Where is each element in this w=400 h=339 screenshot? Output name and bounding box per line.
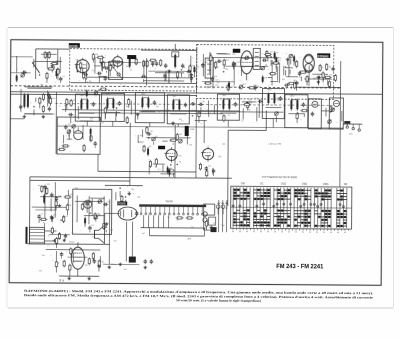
svg-text:4k7: 4k7 [142, 233, 145, 235]
svg-text:100: 100 [204, 62, 207, 64]
svg-text:8p: 8p [57, 262, 59, 264]
svg-text:0,1: 0,1 [53, 66, 56, 68]
svg-text:22p: 22p [247, 109, 250, 111]
svg-text:50: 50 [107, 201, 109, 203]
svg-text:2n2: 2n2 [110, 229, 113, 231]
svg-text:2n2: 2n2 [208, 165, 211, 167]
svg-text:22p: 22p [299, 77, 302, 79]
svg-text:100: 100 [126, 66, 129, 68]
svg-text:0,1: 0,1 [241, 121, 244, 123]
svg-text:10n: 10n [179, 155, 182, 157]
svg-text:220: 220 [69, 194, 72, 196]
svg-text:2n2: 2n2 [139, 135, 142, 137]
svg-text:10n: 10n [143, 77, 146, 79]
svg-text:220: 220 [288, 59, 291, 61]
svg-text:MF2: MF2 [80, 95, 84, 97]
svg-text:TUTTI SEZIONI DA TAVI IN BASE: TUTTI SEZIONI DA TAVI IN BASE [262, 176, 298, 179]
svg-text:8p: 8p [151, 131, 153, 133]
svg-text:5Y3GB: 5Y3GB [118, 203, 126, 206]
svg-text:2n2: 2n2 [101, 122, 104, 124]
svg-text:50: 50 [137, 186, 139, 188]
svg-text:DTRBM2: DTRBM2 [318, 54, 329, 58]
svg-text:0,1: 0,1 [73, 100, 76, 102]
svg-text:4k7: 4k7 [249, 101, 252, 103]
svg-text:220: 220 [191, 227, 194, 229]
svg-text:8p: 8p [168, 217, 170, 219]
svg-text:2n2: 2n2 [239, 61, 242, 63]
svg-text:0,1: 0,1 [62, 76, 65, 78]
svg-text:220: 220 [210, 80, 213, 82]
svg-text:50: 50 [130, 70, 132, 72]
svg-text:2n2: 2n2 [73, 253, 76, 255]
svg-text:MF: MF [344, 183, 348, 186]
svg-text:MF2: MF2 [267, 89, 271, 91]
svg-text:4k7: 4k7 [102, 264, 105, 266]
svg-text:8p: 8p [69, 204, 71, 206]
svg-text:MF2: MF2 [106, 94, 110, 96]
svg-text:8p: 8p [155, 166, 157, 168]
svg-text:0,1: 0,1 [92, 70, 95, 72]
svg-text:ECC85: ECC85 [69, 44, 78, 48]
svg-text:100: 100 [218, 156, 221, 158]
svg-text:50 watt/50 watt. (Le valvole h: 50 watt/50 watt. (Le valvole hanno le si… [176, 298, 261, 303]
svg-text:220: 220 [107, 78, 110, 80]
svg-text:50: 50 [81, 68, 83, 70]
svg-text:22p: 22p [98, 90, 101, 92]
svg-text:8p: 8p [126, 106, 128, 108]
svg-text:10n: 10n [102, 198, 105, 200]
svg-text:220: 220 [63, 146, 66, 148]
svg-text:220: 220 [39, 271, 42, 273]
svg-text:2n2: 2n2 [277, 100, 280, 102]
svg-text:0,1: 0,1 [228, 115, 231, 117]
svg-text:2n2: 2n2 [196, 66, 199, 68]
svg-text:8p: 8p [183, 67, 185, 69]
svg-text:50: 50 [179, 161, 181, 163]
svg-text:22p: 22p [225, 69, 228, 71]
svg-text:2n2: 2n2 [270, 51, 273, 53]
svg-text:22p: 22p [42, 255, 45, 257]
svg-text:50: 50 [58, 238, 60, 240]
svg-text:FM 88: FM 88 [166, 200, 173, 203]
svg-text:220: 220 [199, 111, 202, 113]
svg-text:22p: 22p [193, 70, 196, 72]
svg-text:10n: 10n [52, 98, 55, 100]
svg-text:0,1: 0,1 [158, 169, 161, 171]
svg-text:220: 220 [222, 144, 225, 146]
svg-text:EL41: EL41 [69, 242, 75, 244]
svg-text:100: 100 [237, 62, 240, 64]
svg-text:22p: 22p [85, 265, 88, 267]
svg-text:22p: 22p [95, 54, 98, 56]
svg-text:220: 220 [68, 124, 71, 126]
svg-text:4k7: 4k7 [179, 119, 182, 121]
svg-text:220: 220 [75, 188, 78, 190]
svg-text:ant: ant [41, 83, 44, 86]
svg-text:MF2: MF2 [290, 95, 294, 97]
svg-text:47k: 47k [148, 146, 151, 148]
svg-text:220: 220 [47, 184, 50, 186]
svg-text:10n: 10n [292, 60, 295, 62]
svg-text:100: 100 [192, 110, 195, 112]
svg-text:22p: 22p [311, 58, 314, 60]
svg-text:22p: 22p [123, 85, 126, 87]
svg-text:47k: 47k [148, 213, 151, 215]
svg-text:2n2: 2n2 [56, 61, 59, 63]
svg-text:2n2: 2n2 [243, 84, 246, 86]
svg-text:0,1: 0,1 [242, 67, 245, 69]
svg-text:8p: 8p [329, 66, 331, 68]
svg-text:0,1: 0,1 [85, 206, 88, 208]
svg-text:100: 100 [329, 74, 332, 76]
svg-text:22p: 22p [137, 196, 140, 198]
svg-text:22p: 22p [127, 191, 130, 193]
svg-text:10n: 10n [89, 81, 92, 83]
svg-text:4k7: 4k7 [266, 104, 269, 106]
svg-text:a 600 per FM: a 600 per FM [268, 142, 281, 145]
svg-text:2n2: 2n2 [278, 60, 281, 62]
svg-text:220: 220 [131, 189, 134, 191]
svg-text:100: 100 [189, 144, 192, 146]
svg-text:220: 220 [277, 64, 280, 66]
svg-text:22p: 22p [313, 78, 316, 80]
svg-text:22p: 22p [210, 86, 213, 88]
svg-text:100: 100 [282, 79, 285, 81]
svg-text:0,1: 0,1 [92, 225, 95, 227]
svg-text:8p: 8p [276, 52, 278, 54]
svg-text:50: 50 [65, 216, 67, 218]
svg-text:2n2: 2n2 [114, 241, 117, 243]
svg-text:100: 100 [98, 214, 101, 216]
svg-text:OMG: OMG [323, 183, 329, 186]
svg-text:2n2: 2n2 [124, 269, 127, 271]
svg-text:2n2: 2n2 [106, 223, 109, 225]
svg-text:10n: 10n [163, 74, 166, 76]
svg-text:0,1: 0,1 [255, 98, 258, 100]
svg-text:100: 100 [58, 195, 61, 197]
svg-text:MF2: MF2 [222, 95, 226, 97]
svg-text:FM 243 - FM 2241: FM 243 - FM 2241 [276, 263, 323, 270]
svg-text:4k7: 4k7 [226, 60, 229, 62]
svg-text:8p: 8p [105, 86, 107, 88]
svg-text:0,1: 0,1 [41, 214, 44, 216]
svg-text:OC: OC [260, 182, 264, 185]
svg-text:47k: 47k [296, 114, 299, 116]
svg-text:47k: 47k [216, 67, 219, 69]
svg-text:220: 220 [215, 84, 218, 86]
svg-text:22p: 22p [320, 67, 323, 69]
svg-text:4k7: 4k7 [155, 136, 158, 138]
svg-text:OM: OM [241, 182, 245, 185]
svg-text:A137: A137 [138, 141, 144, 144]
svg-text:MF2: MF2 [141, 93, 145, 95]
svg-text:OCE: OCE [281, 183, 287, 186]
svg-text:8p: 8p [203, 101, 205, 103]
svg-text:OM2: OM2 [302, 183, 308, 186]
svg-text:MF2: MF2 [172, 96, 176, 98]
svg-text:50: 50 [63, 217, 65, 219]
svg-text:50: 50 [233, 86, 235, 88]
svg-text:220: 220 [156, 106, 159, 108]
svg-text:8p: 8p [101, 70, 103, 72]
svg-text:8p: 8p [187, 72, 189, 74]
